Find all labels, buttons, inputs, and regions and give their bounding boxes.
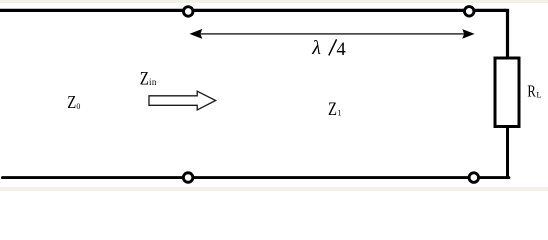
svg-text:λ: λ <box>311 37 321 59</box>
svg-text:L: L <box>536 90 541 100</box>
wire bottom conductor <box>3 176 509 179</box>
dimension arrow lambda/4 <box>190 29 475 39</box>
svg-text:in: in <box>149 77 157 87</box>
svg-text:Z: Z <box>328 100 337 120</box>
svg-text:Z: Z <box>140 68 149 89</box>
node top-right port terminal <box>464 7 474 16</box>
wire vertical from load resistor bottom to bottom conductor <box>506 126 509 178</box>
svg-text:R: R <box>527 81 536 100</box>
svg-text:Z: Z <box>67 92 76 112</box>
resistor RL body <box>495 58 519 127</box>
svg-text:4: 4 <box>337 40 346 60</box>
svg-text:1: 1 <box>337 108 341 117</box>
node top-left port terminal <box>183 7 193 17</box>
node bottom-right port terminal <box>469 173 479 183</box>
svg-text:0: 0 <box>76 102 80 111</box>
node bottom-left port terminal <box>183 173 193 183</box>
arrow Zin direction block arrow <box>149 91 216 110</box>
wire top conductor with right corner down to load <box>0 10 508 58</box>
